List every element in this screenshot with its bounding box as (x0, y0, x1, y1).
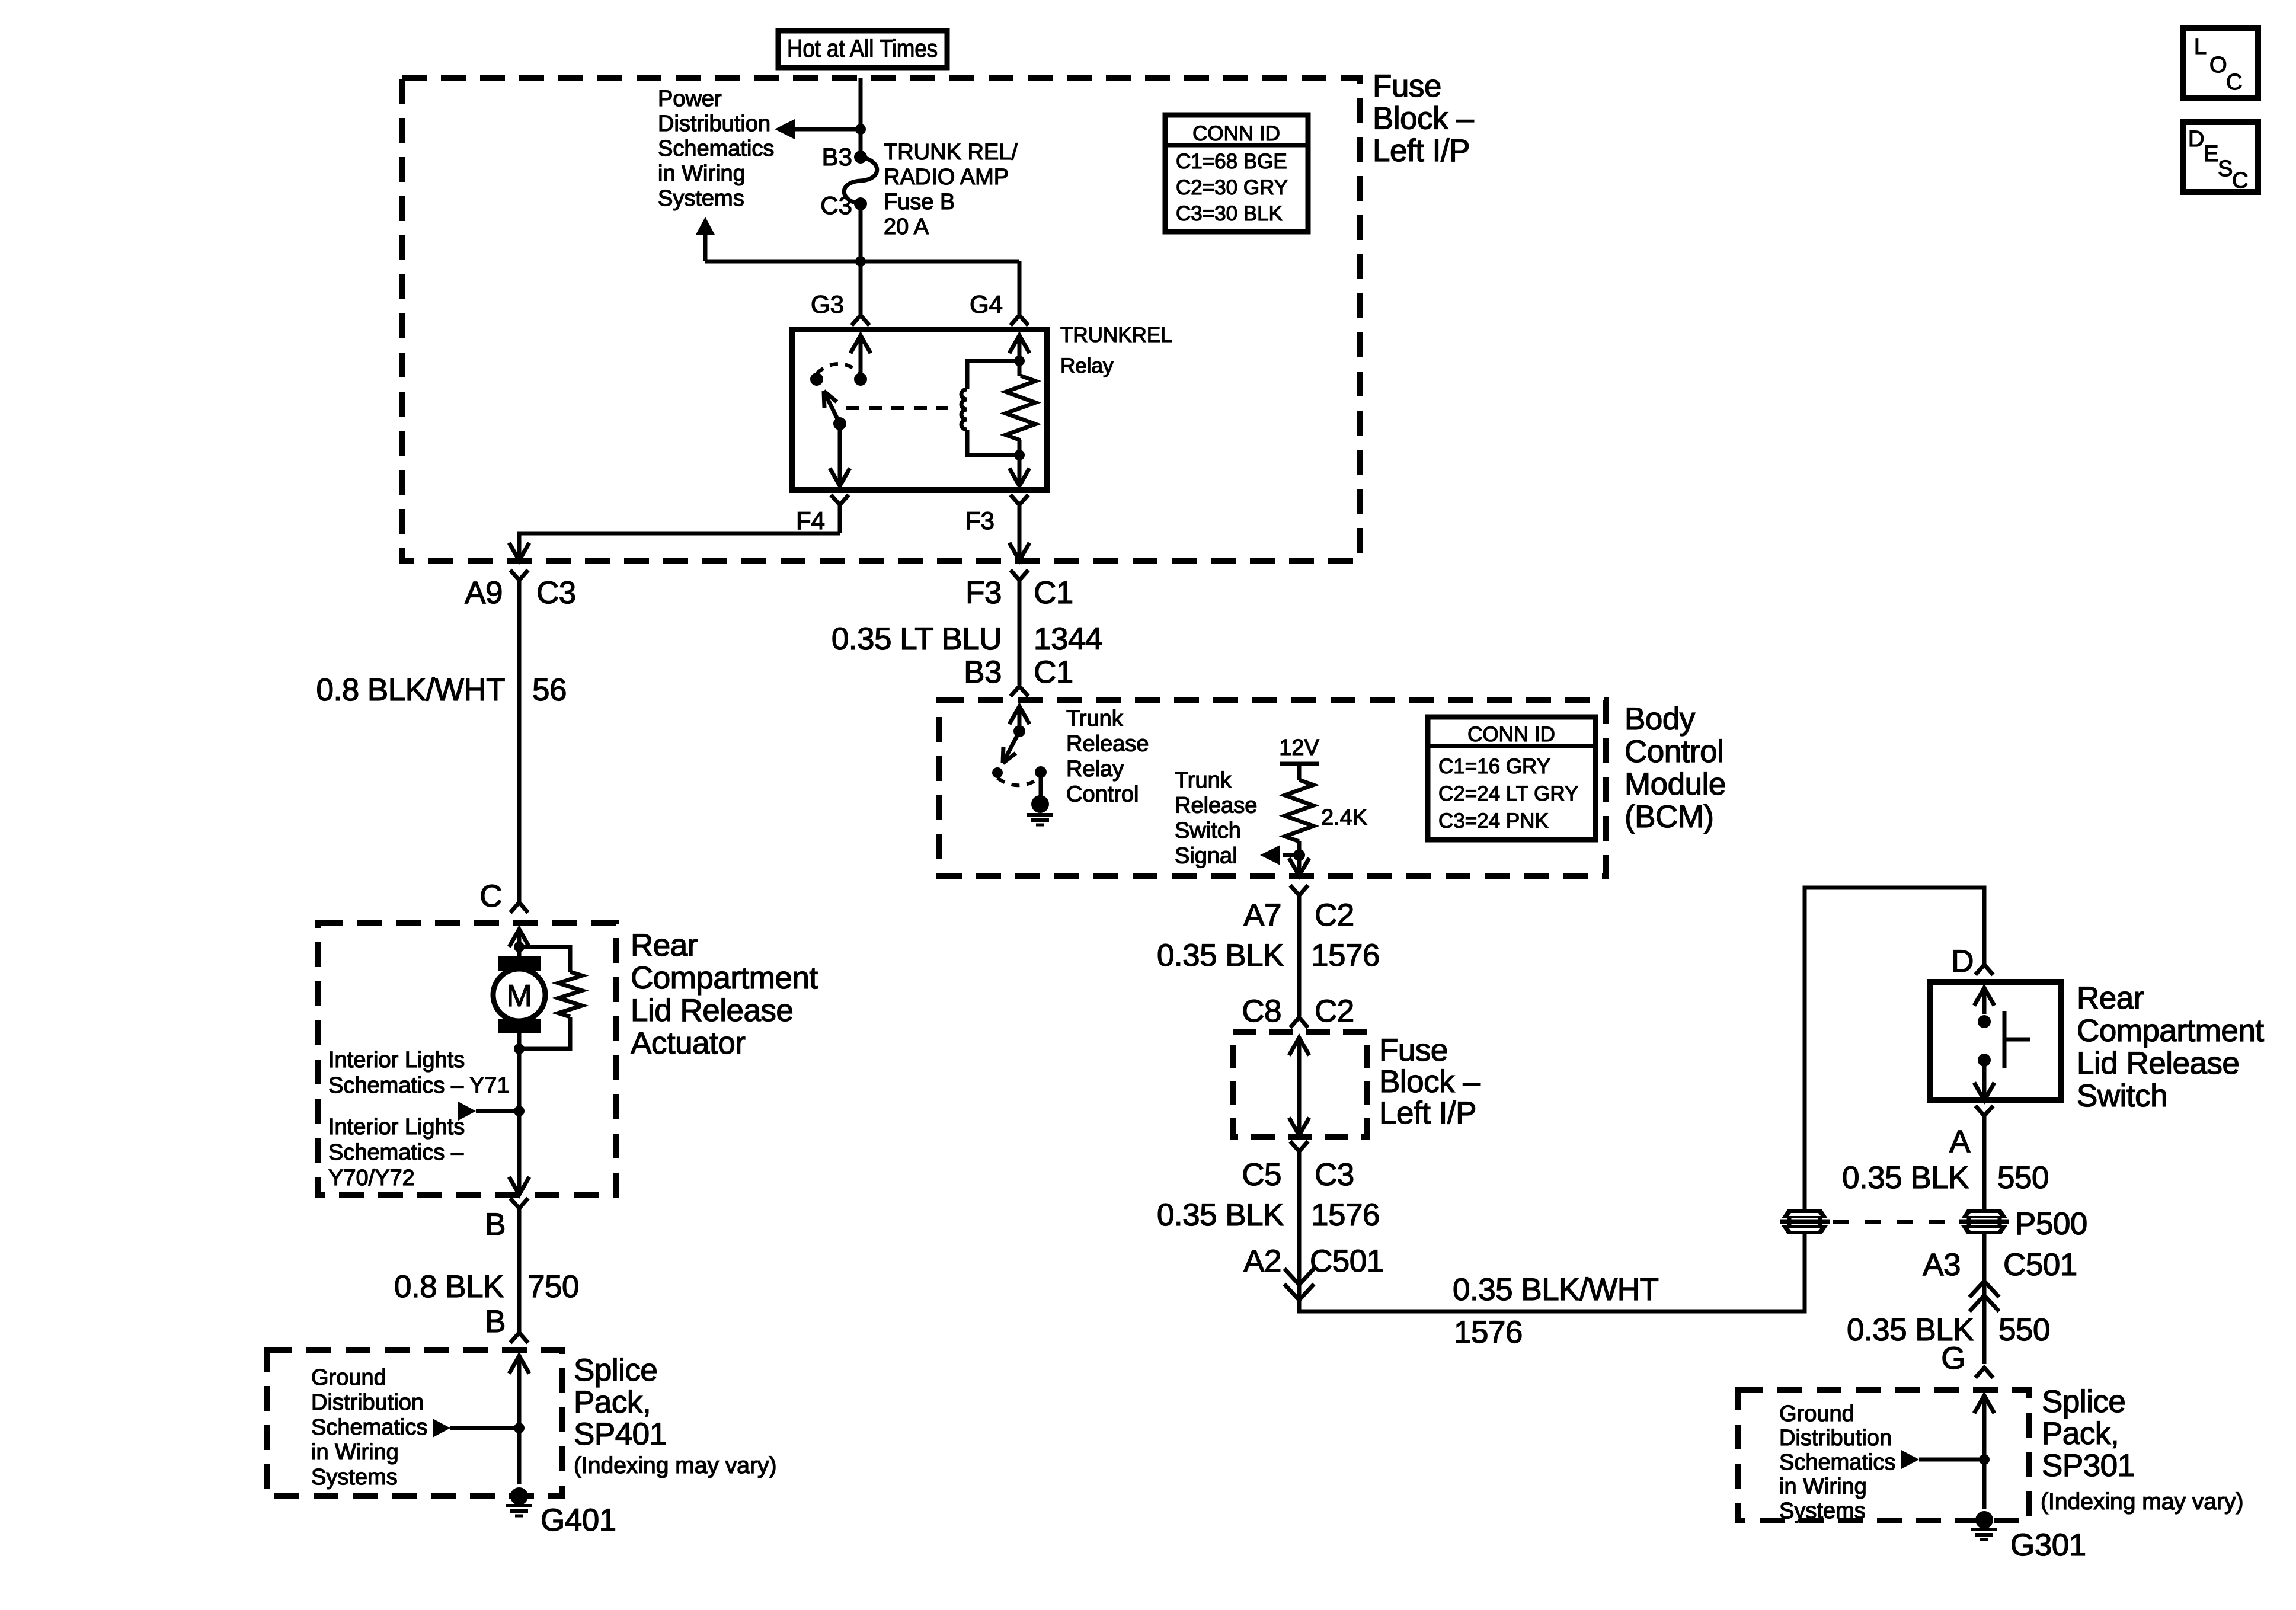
svg-text:Release: Release (1066, 732, 1149, 757)
svg-text:F3: F3 (965, 575, 1002, 610)
svg-text:0.35 BLK: 0.35 BLK (1157, 938, 1284, 973)
svg-text:Splice: Splice (2042, 1384, 2125, 1419)
label B3 (BCM) (964, 655, 1002, 690)
svg-text:C1: C1 (1034, 575, 1073, 610)
svg-text:0.35 BLK/WHT: 0.35 BLK/WHT (1453, 1272, 1659, 1307)
label C5 (1242, 1157, 1281, 1192)
svg-text:C: C (2226, 70, 2242, 95)
fuse text "TRUNK REL/ RADIO AMP Fuse B 20 A" (884, 140, 1018, 239)
label "Rear Compartment Lid Release Switch" (2077, 981, 2264, 1113)
DESC flag (2183, 122, 2258, 193)
relay coil (961, 361, 1021, 455)
svg-text:Control: Control (1625, 734, 1723, 769)
svg-text:Distribution: Distribution (658, 111, 770, 136)
label 2.4K (1321, 805, 1367, 830)
label "Body Control Module (BCM)" (1625, 702, 1726, 834)
svg-text:Ground: Ground (311, 1365, 386, 1390)
connector A7/C2 (1290, 885, 1308, 1016)
wire label 0.35 BLK (lower) (1157, 1198, 1284, 1233)
circuit number 1576 (upper) (1311, 938, 1380, 973)
svg-text:D: D (2188, 127, 2204, 152)
svg-text:(Indexing may vary): (Indexing may vary) (2041, 1489, 2243, 1515)
svg-text:Lid Release: Lid Release (2077, 1046, 2239, 1081)
svg-text:Y70/Y72: Y70/Y72 (328, 1166, 415, 1190)
svg-text:0.8 BLK/WHT: 0.8 BLK/WHT (316, 673, 506, 708)
reference arrow to Ground Distribution Schematics (SP301) (1901, 1450, 1990, 1469)
svg-text:C3=30 BLK: C3=30 BLK (1176, 202, 1283, 225)
svg-text:in Wiring: in Wiring (1779, 1474, 1867, 1499)
reference arrow to Ground Distribution Schematics (SP401) (433, 1419, 525, 1438)
CONN ID table of BCM (1428, 717, 1595, 840)
circuit number 1344 (1034, 622, 1102, 657)
svg-text:12V: 12V (1279, 735, 1319, 760)
svg-text:Module: Module (1625, 767, 1726, 802)
label C501 (right) (2003, 1247, 2077, 1282)
label C2 (upper) (1315, 898, 1354, 933)
fuse block pass-through wire (1289, 1038, 1309, 1135)
svg-text:G4: G4 (970, 290, 1003, 318)
BCM signal junction (1260, 841, 1309, 876)
body control module dashed box (939, 700, 1606, 876)
label B at splice pack (485, 1304, 506, 1339)
svg-text:550: 550 (1998, 1313, 2050, 1347)
ground G301 (1971, 1511, 1997, 1539)
reference text "Interior Lights Schematics - Y70/Y72" (328, 1115, 465, 1190)
svg-text:C: C (2232, 168, 2248, 193)
svg-text:Schematics: Schematics (1779, 1450, 1895, 1475)
svg-text:(Indexing may vary): (Indexing may vary) (574, 1453, 776, 1478)
connector at fuse block pin C5 (1290, 1141, 1308, 1275)
svg-text:B3: B3 (964, 655, 1002, 690)
svg-text:Trunk: Trunk (1066, 706, 1124, 731)
wire to relay pin G3 (859, 261, 863, 315)
connector at fuse block pin C8 (1290, 1017, 1308, 1028)
label "Rear Compartment Lid Release Actuator" (631, 928, 818, 1061)
svg-text:G3: G3 (811, 290, 844, 318)
wire from Hot at All Times to fuse B3 (859, 78, 863, 157)
BCM driver switch contacts (992, 766, 1047, 778)
label C501 (left) (1310, 1244, 1384, 1279)
connector at G4 (1011, 315, 1028, 325)
svg-text:A7: A7 (1243, 898, 1281, 933)
relay resistor (1006, 376, 1035, 440)
svg-text:Control: Control (1066, 782, 1139, 807)
svg-text:0.35 BLK: 0.35 BLK (1842, 1160, 1969, 1195)
in-line connector C501 cavity A3 (1969, 1268, 1999, 1364)
reference up-arrow to Power Distribution Schematics (696, 217, 715, 261)
svg-text:Release: Release (1175, 793, 1257, 818)
svg-text:550: 550 (1997, 1160, 2049, 1195)
svg-text:A3: A3 (1923, 1247, 1961, 1282)
svg-text:Block –: Block – (1379, 1064, 1480, 1099)
label "Fuse Block - Left I/P" (1373, 69, 1474, 168)
BCM 2.4K pull-up resistor (1285, 780, 1313, 841)
svg-text:Rear: Rear (2077, 981, 2144, 1016)
pin label B (485, 1207, 506, 1242)
svg-text:Splice: Splice (574, 1353, 657, 1388)
label "Splice Pack, SP301" (2041, 1384, 2243, 1515)
connector at BCM pin B3 (1011, 686, 1028, 696)
reference arrow to Power Distribution Schematics (775, 119, 861, 139)
pass-through grommet P500 (left) (1780, 1209, 1830, 1234)
svg-text:F4: F4 (796, 507, 825, 534)
svg-text:Fuse: Fuse (1379, 1033, 1448, 1068)
label A9 (465, 575, 503, 610)
svg-text:C5: C5 (1242, 1157, 1281, 1192)
svg-text:C2: C2 (1315, 898, 1354, 933)
svg-text:Power: Power (658, 87, 722, 111)
ground G401 (506, 1487, 532, 1516)
rear compartment lid release actuator dashed box (318, 923, 616, 1195)
svg-text:Schematics: Schematics (658, 136, 774, 161)
svg-text:Relay: Relay (1060, 354, 1114, 377)
svg-text:Left I/P: Left I/P (1373, 133, 1470, 168)
svg-text:Fuse: Fuse (1373, 69, 1441, 104)
actuator internal wire to pin B (509, 1049, 529, 1195)
label "Splice Pack, SP401" (574, 1353, 776, 1478)
label A7 (1243, 898, 1281, 933)
svg-text:A2: A2 (1243, 1244, 1281, 1279)
svg-text:C1=16 GRY: C1=16 GRY (1438, 755, 1550, 778)
label "TRUNKREL Relay" (1060, 324, 1172, 377)
rear compartment lid release switch box (1930, 982, 2061, 1100)
svg-text:G401: G401 (541, 1503, 616, 1538)
svg-text:Lid Release: Lid Release (631, 993, 793, 1028)
pin label G (1941, 1341, 1965, 1376)
svg-text:Pack,: Pack, (2042, 1416, 2119, 1451)
svg-text:Block –: Block – (1373, 101, 1474, 136)
svg-text:Schematics: Schematics (311, 1415, 427, 1440)
relay switch arm (824, 391, 840, 424)
label C2 (lower) (1315, 994, 1354, 1029)
svg-text:Distribution: Distribution (1779, 1426, 1892, 1451)
connector at actuator pin B (510, 1198, 528, 1333)
circuit number 1576 (cross wire) (1454, 1315, 1523, 1350)
svg-text:TRUNKREL: TRUNKREL (1060, 324, 1172, 347)
pin label B3 (822, 143, 852, 171)
CONN ID table of fuse block (1165, 115, 1308, 232)
pass-through grommet P500 (right) (1959, 1209, 2009, 1234)
svg-text:C8: C8 (1242, 994, 1281, 1029)
svg-text:Rear: Rear (631, 928, 698, 963)
wire from F4 to fuse block bottom edge (509, 533, 840, 561)
wire label 0.35 BLK (switch side) (1842, 1160, 1969, 1195)
circuit number 750 (527, 1269, 579, 1304)
connector at G3 (852, 315, 869, 325)
svg-text:RADIO AMP: RADIO AMP (884, 165, 1009, 190)
power label "Hot at All Times" (778, 31, 947, 68)
SP401 internal arrow (509, 1356, 529, 1484)
wire label 0.35 BLK (ground side) (1847, 1313, 1974, 1347)
wire label 0.8 BLK/WHT (316, 673, 506, 708)
svg-text:E: E (2204, 142, 2218, 167)
svg-text:Signal: Signal (1175, 844, 1237, 869)
wire to relay pin G4 (1018, 261, 1022, 315)
pin label D (1951, 944, 1974, 979)
svg-text:1576: 1576 (1311, 938, 1380, 973)
svg-text:Systems: Systems (311, 1465, 398, 1490)
svg-text:M: M (506, 979, 532, 1013)
svg-text:C2: C2 (1315, 994, 1354, 1029)
svg-text:(BCM): (BCM) (1625, 799, 1714, 834)
wire from P500 to C501 (right) (1982, 1233, 1987, 1285)
svg-text:in Wiring: in Wiring (311, 1440, 399, 1465)
relay G3 internal arrow (850, 335, 871, 379)
svg-text:SP301: SP301 (2042, 1448, 2135, 1483)
svg-text:20 A: 20 A (884, 215, 929, 239)
label F3 (connector) (965, 575, 1002, 610)
reference text "Interior Lights Schematics - Y71" (328, 1048, 510, 1098)
actuator resistor (519, 947, 582, 1049)
svg-text:C3: C3 (536, 575, 576, 610)
connector at actuator pin C (510, 902, 528, 913)
svg-text:Compartment: Compartment (2077, 1013, 2264, 1048)
pin label F3 (965, 507, 994, 534)
wire label 0.8 BLK (394, 1269, 504, 1304)
BCM driver ground (1027, 772, 1053, 825)
circuit number 56 (532, 673, 567, 708)
BCM driver switch arm (1003, 731, 1019, 763)
text "Trunk Release Switch Signal" (1175, 768, 1257, 869)
svg-text:C2=30 GRY: C2=30 GRY (1176, 176, 1288, 199)
label G301 (2010, 1528, 2086, 1563)
reference text "Power Distribution Schematics in Wiring Systems" (658, 87, 774, 211)
svg-text:Hot at All Times: Hot at All Times (787, 34, 938, 62)
svg-text:G: G (1941, 1341, 1965, 1376)
svg-text:C1=68 BGE: C1=68 BGE (1176, 150, 1287, 173)
svg-text:A: A (1949, 1124, 1971, 1159)
svg-text:C3: C3 (820, 191, 852, 219)
fuse block - left I/P dashed outline (402, 78, 1360, 561)
label C1 (BCM) (1034, 655, 1073, 690)
splice pack SP301 dashed box (1738, 1390, 2029, 1521)
relay TRUNKREL box (792, 329, 1047, 490)
splice pack SP401 dashed box (267, 1350, 562, 1496)
svg-text:D: D (1951, 944, 1974, 979)
svg-text:in Wiring: in Wiring (658, 161, 746, 186)
label "Fuse Block - Left I/P" (pass-through) (1379, 1033, 1480, 1131)
text "Trunk Release Relay Control" (1066, 706, 1149, 807)
pin label G4 (970, 290, 1003, 318)
in-line connector C501 cavity A2 (1284, 1269, 1314, 1311)
junction node below fuse (855, 256, 866, 267)
svg-text:Pack,: Pack, (574, 1385, 651, 1420)
connector at switch pin D (1975, 965, 1993, 975)
push button actuator symbol (2004, 1011, 2030, 1068)
svg-text:B: B (485, 1207, 506, 1242)
svg-text:Schematics – Y71: Schematics – Y71 (328, 1073, 510, 1098)
connector at relay pin F4 (831, 495, 849, 533)
connector at relay pin F3 (1009, 495, 1029, 561)
LOC flag (2183, 28, 2258, 98)
svg-text:TRUNK REL/: TRUNK REL/ (884, 140, 1018, 165)
connector A9/C3 (510, 570, 528, 902)
svg-text:750: 750 (527, 1269, 579, 1304)
actuator internal arrow at C (509, 929, 529, 956)
relay switch dashed arc (817, 364, 861, 373)
SP301 internal arrow (1974, 1395, 1994, 1509)
svg-text:Left I/P: Left I/P (1379, 1096, 1476, 1131)
connector F3/C1 (1011, 570, 1028, 685)
svg-text:B: B (485, 1304, 506, 1339)
svg-text:Compartment: Compartment (631, 961, 818, 996)
reference arrow to Interior Lights Schematics (458, 1102, 525, 1121)
svg-text:C1: C1 (1034, 655, 1073, 690)
svg-text:Schematics –: Schematics – (328, 1140, 464, 1165)
BCM relay control internal arrow (1009, 706, 1029, 737)
dashed link between P500 halves (1833, 1220, 1959, 1224)
circuit number 1576 (lower) (1311, 1198, 1380, 1233)
connector at switch pin A (1975, 1106, 1993, 1211)
svg-text:Trunk: Trunk (1175, 768, 1232, 793)
relay F4 internal wire and arrow (830, 424, 850, 486)
svg-text:P500: P500 (2015, 1206, 2087, 1241)
wire A2 to P500 branch (1299, 1233, 1805, 1311)
label C3 (connector) (536, 575, 576, 610)
svg-text:2.4K: 2.4K (1321, 805, 1367, 830)
reference text "Ground Distribution Schematics in Wiring Systems" (SP301) (1779, 1401, 1895, 1523)
12V supply tap (1279, 735, 1319, 780)
pin label F4 (796, 507, 825, 534)
switch internal contacts (1974, 988, 1994, 1100)
pin label A (1949, 1124, 1971, 1159)
relay G4 internal arrow and wire (1009, 335, 1029, 486)
svg-text:Interior Lights: Interior Lights (328, 1048, 465, 1073)
bus wire to relay pins G3 and G4 (705, 260, 1019, 264)
svg-text:0.35 BLK: 0.35 BLK (1157, 1198, 1284, 1233)
label G401 (541, 1503, 616, 1538)
svg-text:L: L (2194, 34, 2207, 59)
svg-text:C: C (479, 879, 502, 914)
connector at splice pack SP401 (510, 1333, 528, 1343)
svg-text:C3: C3 (1315, 1157, 1354, 1192)
svg-text:Ground: Ground (1779, 1401, 1854, 1426)
connector at splice pack SP301 (1975, 1368, 1993, 1378)
svg-text:Interior Lights: Interior Lights (328, 1115, 465, 1140)
reference text "Ground Distribution Schematics in Wiring Systems" (SP401) (311, 1365, 427, 1490)
pin label G3 (811, 290, 844, 318)
BCM driver dashed arc (997, 777, 1041, 785)
label C3 (lower) (1315, 1157, 1354, 1192)
svg-text:56: 56 (532, 673, 567, 708)
svg-text:Actuator: Actuator (631, 1026, 745, 1061)
svg-text:1344: 1344 (1034, 622, 1102, 657)
wire label 0.35 BLK/WHT (1453, 1272, 1659, 1307)
svg-text:Relay: Relay (1066, 757, 1124, 782)
label A2 (1243, 1244, 1281, 1279)
svg-text:C2=24 LT GRY: C2=24 LT GRY (1438, 782, 1578, 805)
wire label 0.35 BLK (upper) (1157, 938, 1284, 973)
svg-text:B3: B3 (822, 143, 852, 171)
motor M of lid release actuator (493, 956, 545, 1054)
svg-text:CONN ID: CONN ID (1192, 122, 1280, 145)
svg-text:A9: A9 (465, 575, 503, 610)
pin label C3 (820, 191, 852, 219)
svg-text:0.35 LT BLU: 0.35 LT BLU (832, 622, 1002, 657)
pin label C (479, 879, 502, 914)
fuse TRUNK REL/RADIO AMP Fuse B 20 A symbol (844, 151, 877, 210)
label P500 (2015, 1206, 2087, 1241)
svg-text:O: O (2209, 53, 2227, 78)
svg-text:S: S (2218, 156, 2233, 181)
svg-text:Switch: Switch (2077, 1078, 2167, 1113)
label A3 (1923, 1247, 1961, 1282)
svg-text:1576: 1576 (1454, 1315, 1523, 1350)
label C1 (upper) (1034, 575, 1073, 610)
svg-text:0.8 BLK: 0.8 BLK (394, 1269, 504, 1304)
svg-text:F3: F3 (965, 507, 994, 534)
svg-text:C501: C501 (2003, 1247, 2077, 1282)
relay switch contacts (810, 373, 867, 430)
svg-text:Fuse B: Fuse B (884, 190, 955, 215)
svg-text:C3=24 PNK: C3=24 PNK (1438, 809, 1549, 833)
circuit number 550 (lower) (1998, 1313, 2050, 1347)
wire fuse C3 to junction (859, 204, 863, 261)
svg-text:SP401: SP401 (574, 1417, 667, 1452)
junction node on battery feed (855, 124, 866, 135)
label C8 (1242, 994, 1281, 1029)
svg-text:Systems: Systems (658, 186, 744, 211)
svg-text:1576: 1576 (1311, 1198, 1380, 1233)
svg-text:CONN ID: CONN ID (1467, 723, 1555, 746)
svg-text:C501: C501 (1310, 1244, 1384, 1279)
svg-text:Systems: Systems (1779, 1499, 1866, 1523)
svg-text:Switch: Switch (1175, 818, 1241, 843)
wire from P500 up and over to switch pin D (1805, 888, 1984, 1211)
svg-text:Body: Body (1625, 702, 1696, 737)
svg-text:G301: G301 (2010, 1528, 2086, 1563)
circuit number 550 (upper) (1997, 1160, 2049, 1195)
svg-text:Distribution: Distribution (311, 1390, 424, 1415)
fuse block pass-through dashed box (1233, 1032, 1367, 1137)
relay control dashed link (846, 406, 948, 410)
wire label 0.35 LT BLU (832, 622, 1002, 657)
